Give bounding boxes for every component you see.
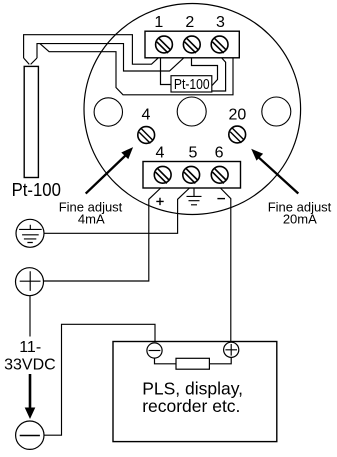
- output terminal block (4 5 6): [143, 162, 241, 189]
- probe neck: [24, 58, 37, 64]
- Pt-100 probe body: [24, 66, 38, 177]
- wire: probe lead to terminal 2: [37, 44, 184, 71]
- mounting hole right: [262, 97, 291, 126]
- mounting hole center: [177, 97, 206, 126]
- svg-text:6: 6: [215, 145, 224, 162]
- zero adjust potentiometer (4): [138, 127, 155, 144]
- svg-text:20mA: 20mA: [283, 212, 317, 227]
- svg-text:33VDC: 33VDC: [4, 357, 56, 374]
- supply polarity arrow: [25, 374, 36, 419]
- wire: terminal 5 (earth) to supply earth: [44, 188, 190, 233]
- svg-text:4mA: 4mA: [78, 212, 105, 227]
- supply earth terminal: [16, 219, 44, 247]
- svg-text:4: 4: [142, 107, 151, 124]
- wire: printed link terminal 3 to Pt-100 box: [212, 58, 226, 91]
- screw terminal 3: [211, 36, 228, 53]
- mounting hole left: [94, 98, 122, 126]
- svg-text:3: 3: [216, 14, 225, 31]
- supply minus terminal: [16, 421, 44, 449]
- label 11-33VDC: [4, 339, 56, 374]
- load series resistor: [176, 358, 209, 369]
- svg-text:recorder etc.: recorder etc.: [142, 396, 240, 416]
- minus marking at terminal 6 wire: [217, 198, 225, 200]
- span adjust potentiometer (20): [229, 126, 246, 143]
- fine adjust arrow 4mA: [86, 147, 133, 194]
- label Fine adjust 4mA: [59, 200, 123, 227]
- screw terminal 4: [154, 166, 171, 183]
- supply plus terminal: [16, 268, 44, 296]
- wire: terminal 6 (-) to load plus: [220, 188, 230, 342]
- wire: supply minus to load minus: [44, 324, 155, 435]
- screw terminal 1: [156, 36, 173, 53]
- svg-text:20: 20: [229, 107, 247, 124]
- wire: load internal with series resistor: [155, 358, 177, 364]
- svg-text:2: 2: [185, 14, 194, 31]
- svg-text:4: 4: [156, 145, 165, 162]
- screw terminal 5: [183, 166, 200, 183]
- wire: probe lead to terminal 3: [40, 44, 233, 95]
- transmitter body (round head): [84, 4, 301, 215]
- load box (PLS, display, recorder): [113, 342, 277, 442]
- fine adjust arrow 20mA: [251, 149, 298, 194]
- load minus terminal: [147, 343, 162, 358]
- svg-text:11-: 11-: [19, 339, 41, 356]
- svg-text:Pt-100: Pt-100: [12, 180, 61, 200]
- earth marking at terminal 5 wire: [187, 189, 202, 205]
- wire: terminal 4 (+) to supply plus: [44, 188, 161, 281]
- wire: probe lead to terminal 1: [24, 35, 159, 64]
- wire: printed link terminal 2 to Pt-100 box: [192, 58, 218, 86]
- plus marking at terminal 4 wire: [156, 198, 163, 205]
- label PLS display recorder: [142, 378, 243, 416]
- screw terminal 2: [183, 36, 200, 53]
- svg-text:Pt-100: Pt-100: [174, 77, 210, 93]
- screw terminal 6: [211, 166, 228, 183]
- wire: supply plus down to source: [29, 296, 31, 337]
- svg-text:1: 1: [154, 14, 163, 31]
- sensor terminal block (1 2 3): [145, 31, 239, 58]
- Pt-100 sensor symbol box: [171, 76, 212, 94]
- wire: printed link terminal 1 to Pt-100 box: [161, 58, 173, 85]
- svg-text:5: 5: [189, 145, 198, 162]
- label Fine adjust 20mA: [268, 200, 332, 227]
- load plus terminal: [224, 342, 239, 357]
